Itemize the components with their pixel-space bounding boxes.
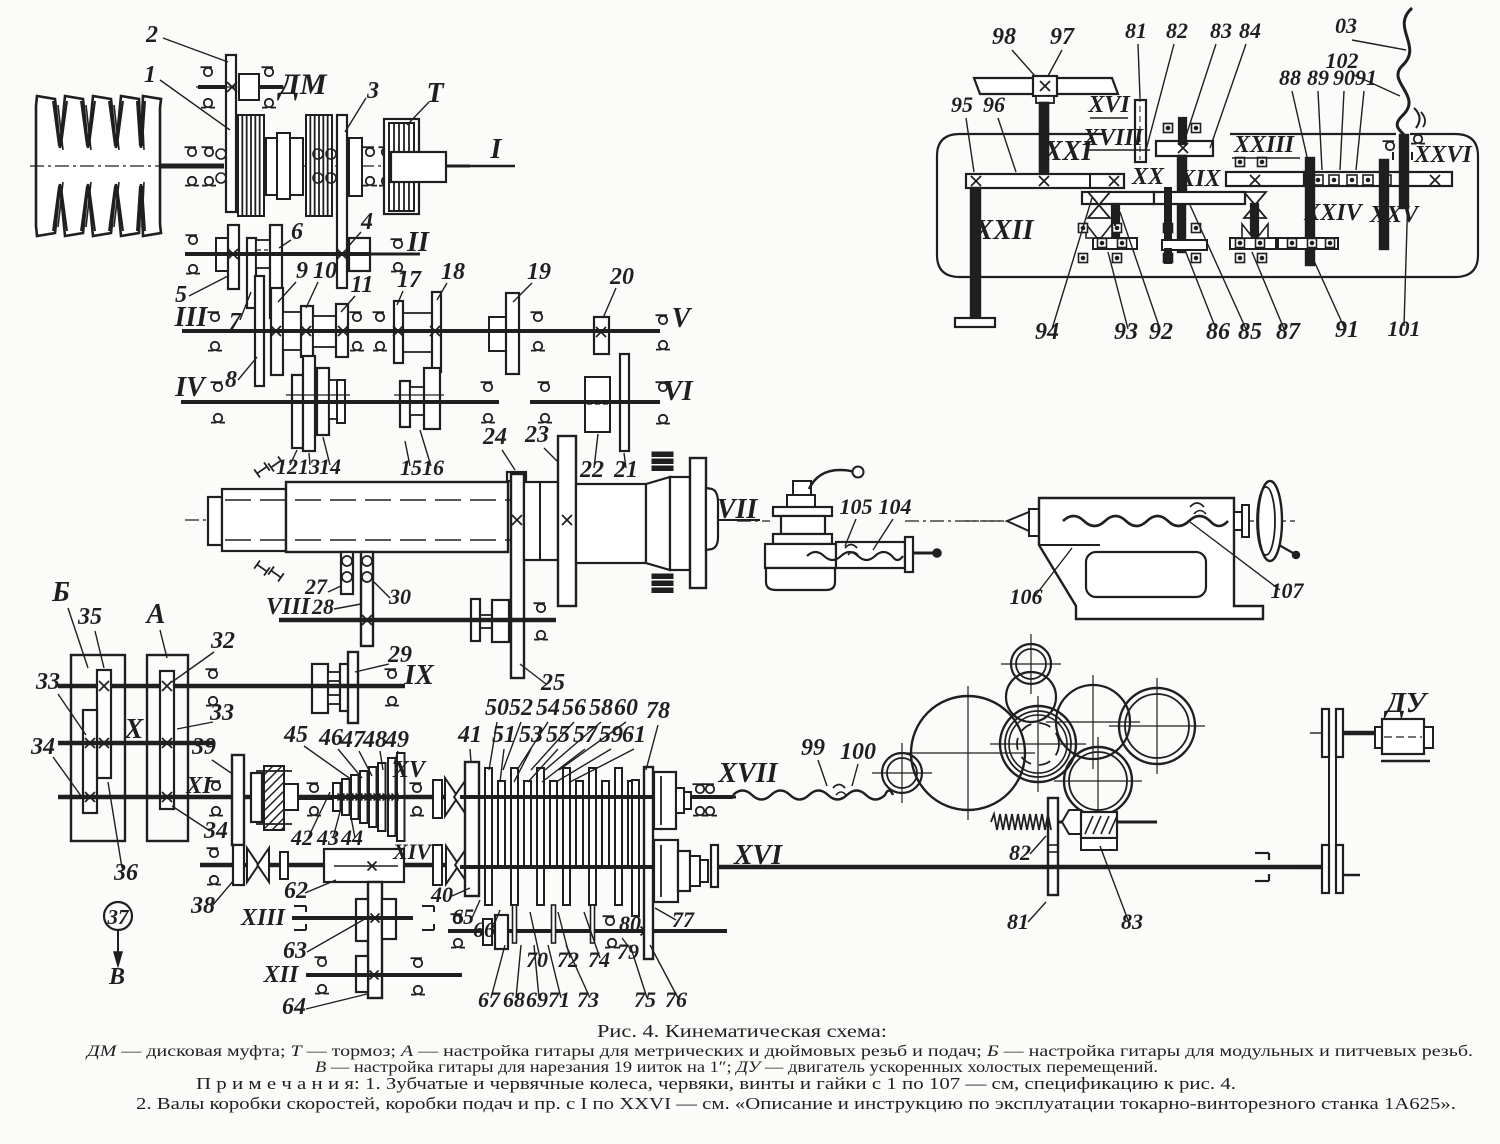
svg-text:Б: Б (51, 577, 70, 608)
svg-text:63: 63 (283, 938, 307, 964)
svg-text:16: 16 (422, 455, 444, 480)
svg-text:56: 56 (562, 695, 586, 721)
svg-text:18: 18 (441, 259, 465, 285)
svg-text:79: 79 (617, 939, 639, 964)
svg-text:42: 42 (290, 825, 313, 850)
svg-text:97: 97 (1050, 24, 1075, 50)
svg-text:IV: IV (174, 372, 207, 403)
svg-text:XI: XI (185, 773, 213, 799)
svg-text:36: 36 (113, 860, 138, 886)
svg-text:82: 82 (1009, 840, 1031, 865)
svg-text:96: 96 (983, 92, 1005, 117)
svg-text:9: 9 (296, 258, 308, 284)
svg-text:95: 95 (951, 92, 973, 117)
svg-text:83: 83 (1121, 909, 1143, 934)
svg-text:32: 32 (210, 628, 235, 654)
svg-text:76: 76 (665, 987, 687, 1012)
svg-text:107: 107 (1271, 578, 1305, 603)
svg-text:74: 74 (588, 947, 610, 972)
svg-text:61: 61 (622, 722, 646, 748)
svg-text:XIII: XIII (240, 905, 287, 931)
svg-text:34: 34 (203, 818, 228, 844)
svg-text:34: 34 (30, 734, 55, 760)
svg-text:П р и м е ч а н и я: 1. Зубчат: П р и м е ч а н и я: 1. Зубчатые и червя… (196, 1074, 1236, 1093)
svg-text:104: 104 (879, 494, 912, 519)
svg-text:102: 102 (1326, 48, 1359, 73)
svg-text:78: 78 (646, 698, 670, 724)
svg-text:ДУ: ДУ (1383, 687, 1429, 719)
svg-text:67: 67 (478, 987, 501, 1012)
svg-text:99: 99 (801, 735, 825, 761)
svg-text:100: 100 (840, 739, 876, 765)
svg-text:68: 68 (503, 987, 525, 1012)
svg-text:17: 17 (397, 267, 422, 293)
svg-text:40: 40 (430, 882, 453, 907)
svg-text:91: 91 (1335, 317, 1359, 343)
svg-text:10: 10 (313, 258, 337, 284)
svg-text:88: 88 (1279, 65, 1301, 90)
svg-text:23: 23 (524, 422, 549, 448)
svg-text:Рис. 4. Кинематическая схема:: Рис. 4. Кинематическая схема: (597, 1021, 887, 1041)
svg-text:92: 92 (1149, 319, 1173, 345)
svg-text:44: 44 (340, 825, 363, 850)
svg-text:15: 15 (400, 455, 422, 480)
svg-text:XXIV: XXIV (1303, 200, 1363, 226)
svg-text:86: 86 (1206, 319, 1230, 345)
svg-text:А: А (145, 599, 166, 630)
svg-text:24: 24 (482, 424, 507, 450)
svg-text:Т: Т (426, 78, 445, 109)
svg-text:62: 62 (284, 878, 308, 904)
svg-text:XIX: XIX (1178, 166, 1221, 192)
svg-text:84: 84 (1239, 18, 1261, 43)
svg-text:XIV: XIV (392, 839, 433, 864)
svg-text:29: 29 (387, 642, 412, 668)
svg-text:35: 35 (77, 604, 102, 630)
svg-text:87: 87 (1276, 319, 1301, 345)
svg-text:V: V (672, 303, 693, 334)
svg-text:XV: XV (392, 757, 427, 783)
svg-text:54: 54 (536, 695, 560, 721)
svg-text:65: 65 (452, 904, 474, 929)
svg-text:19: 19 (527, 259, 551, 285)
svg-text:20: 20 (609, 264, 634, 290)
svg-text:49: 49 (384, 727, 409, 753)
svg-text:38: 38 (190, 893, 215, 919)
svg-text:3: 3 (366, 78, 379, 104)
svg-text:11: 11 (351, 272, 374, 298)
svg-text:VI: VI (663, 376, 694, 407)
svg-text:55: 55 (546, 722, 570, 748)
svg-text:60: 60 (614, 695, 638, 721)
svg-text:XVI: XVI (1087, 92, 1131, 118)
svg-text:83: 83 (1210, 18, 1232, 43)
svg-text:XXIII: XXIII (1233, 132, 1296, 158)
svg-text:В: В (108, 964, 125, 990)
svg-text:82: 82 (1166, 18, 1188, 43)
svg-text:70: 70 (526, 947, 548, 972)
svg-text:I: I (490, 134, 503, 165)
svg-text:28: 28 (311, 594, 334, 619)
svg-text:80: 80 (619, 911, 641, 936)
svg-text:8: 8 (225, 367, 237, 393)
svg-text:II: II (406, 227, 430, 258)
svg-text:106: 106 (1010, 584, 1043, 609)
svg-text:30: 30 (388, 584, 411, 609)
svg-text:03: 03 (1335, 13, 1357, 38)
svg-text:48: 48 (362, 727, 387, 753)
svg-text:39: 39 (191, 734, 216, 760)
svg-text:69: 69 (526, 987, 548, 1012)
svg-text:VII: VII (717, 494, 759, 525)
svg-text:94: 94 (1035, 319, 1059, 345)
svg-text:98: 98 (992, 24, 1016, 50)
svg-text:XII: XII (263, 962, 300, 988)
svg-text:64: 64 (282, 994, 306, 1020)
svg-text:46: 46 (318, 725, 343, 751)
svg-text:81: 81 (1007, 909, 1029, 934)
svg-text:14: 14 (319, 454, 341, 479)
svg-text:ДМ — дисковая муфта; Т — тормо: ДМ — дисковая муфта; Т — тормоз; А — нас… (85, 1043, 1473, 1060)
svg-text:6: 6 (291, 219, 303, 245)
svg-text:33: 33 (35, 669, 60, 695)
svg-text:XXI: XXI (1043, 136, 1093, 167)
svg-text:XXVI: XXVI (1413, 142, 1473, 168)
svg-text:50: 50 (485, 695, 509, 721)
svg-text:XVII: XVII (717, 758, 778, 789)
svg-text:2. Валы коробки скоростей, кор: 2. Валы коробки скоростей, коробки подач… (136, 1094, 1456, 1113)
svg-text:XXV: XXV (1369, 202, 1420, 228)
svg-text:XX: XX (1131, 164, 1165, 190)
svg-text:1: 1 (144, 62, 156, 88)
svg-text:2: 2 (145, 22, 158, 48)
svg-text:III: III (174, 302, 209, 333)
svg-text:45: 45 (283, 722, 308, 748)
svg-text:22: 22 (579, 457, 604, 483)
svg-text:52: 52 (509, 695, 533, 721)
svg-text:4: 4 (360, 209, 373, 235)
svg-text:XXII: XXII (973, 215, 1034, 246)
svg-text:ДМ: ДМ (276, 68, 327, 101)
svg-text:37: 37 (107, 905, 131, 929)
svg-text:81: 81 (1125, 18, 1147, 43)
svg-text:105: 105 (840, 494, 873, 519)
svg-text:41: 41 (457, 722, 482, 748)
svg-text:73: 73 (577, 987, 599, 1012)
svg-text:58: 58 (589, 695, 613, 721)
svg-text:Х: Х (124, 714, 145, 745)
svg-text:85: 85 (1238, 319, 1262, 345)
